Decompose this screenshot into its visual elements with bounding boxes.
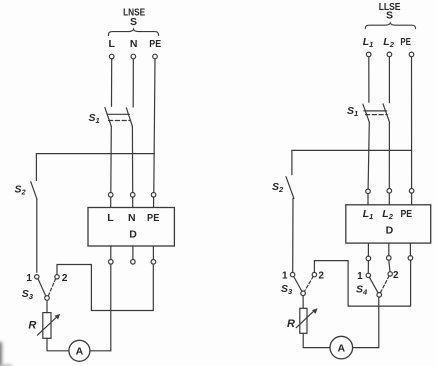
svg-text:2: 2 bbox=[318, 270, 324, 281]
svg-text:L2: L2 bbox=[382, 208, 393, 221]
svg-text:N: N bbox=[128, 212, 136, 224]
svg-text:N: N bbox=[130, 38, 138, 50]
svg-text:S: S bbox=[130, 16, 137, 28]
svg-text:D: D bbox=[386, 225, 394, 237]
svg-text:S1: S1 bbox=[347, 105, 358, 118]
svg-text:S3: S3 bbox=[281, 283, 293, 296]
svg-text:S3: S3 bbox=[22, 288, 34, 301]
svg-text:A: A bbox=[338, 343, 346, 355]
svg-text:L: L bbox=[108, 38, 115, 50]
svg-text:L1: L1 bbox=[363, 36, 374, 49]
svg-text:1: 1 bbox=[26, 273, 32, 284]
svg-text:D: D bbox=[129, 228, 137, 240]
svg-text:PE: PE bbox=[400, 36, 411, 48]
svg-text:PE: PE bbox=[401, 208, 413, 220]
svg-text:S: S bbox=[386, 10, 393, 22]
svg-text:PE: PE bbox=[147, 212, 159, 224]
svg-text:S4: S4 bbox=[356, 284, 368, 297]
svg-text:1: 1 bbox=[282, 270, 288, 281]
svg-text:R: R bbox=[287, 318, 295, 330]
svg-text:2: 2 bbox=[393, 270, 399, 281]
svg-text:2: 2 bbox=[62, 273, 68, 284]
svg-text:L: L bbox=[107, 212, 114, 224]
svg-text:S2: S2 bbox=[272, 181, 284, 194]
svg-text:1: 1 bbox=[357, 271, 363, 282]
svg-text:S2: S2 bbox=[15, 184, 27, 197]
svg-text:S1: S1 bbox=[89, 112, 100, 125]
svg-text:A: A bbox=[76, 346, 84, 358]
svg-text:PE: PE bbox=[149, 38, 161, 50]
svg-text:L2: L2 bbox=[383, 36, 394, 49]
svg-text:L1: L1 bbox=[363, 208, 374, 221]
svg-text:R: R bbox=[28, 320, 36, 332]
